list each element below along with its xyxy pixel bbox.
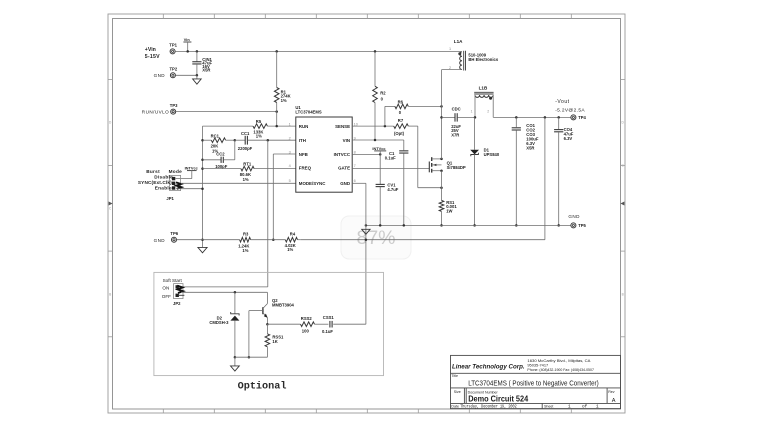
wire soft start bottom row: [235, 356, 268, 358]
capacitor CC2: [201, 140, 235, 169]
svg-text:TP4: TP4: [578, 115, 586, 120]
border zone ticks bottom: [163, 409, 571, 413]
svg-text:2: 2: [449, 66, 451, 70]
transistor Q2 MMBT3904: [249, 292, 295, 325]
label Soft Start: [163, 278, 183, 283]
ground below CIN1: [193, 75, 202, 84]
svg-text:SENSE: SENSE: [335, 124, 350, 129]
U1 pin numbers: [289, 122, 358, 183]
power label INTVcc at U1: [372, 146, 386, 154]
svg-text:-Vout: -Vout: [555, 99, 569, 105]
test point TP5: [568, 214, 586, 228]
capacitor CIN1: [192, 50, 212, 75]
power label INTVcc at JP1: [176, 165, 199, 178]
svg-text:Phone: (408)432-1900 Fax: (408: Phone: (408)432-1900 Fax: (408)434-0507: [527, 367, 594, 372]
svg-text:RT1: RT1: [243, 162, 252, 167]
svg-text:100: 100: [302, 328, 310, 333]
svg-text:ITH: ITH: [299, 138, 306, 143]
wire JP1 pin3 to gnd rail: [176, 187, 204, 190]
border zone letters right: [622, 121, 625, 297]
svg-text:INTVcc: INTVcc: [372, 146, 386, 151]
svg-text:CC2: CC2: [216, 152, 225, 157]
U1 pin labels left: [299, 124, 326, 186]
svg-text:1%: 1%: [287, 247, 293, 252]
resistor RSS1: [265, 324, 284, 357]
resistor RT1: [201, 162, 296, 182]
svg-text:RC1: RC1: [211, 133, 220, 138]
resistor R5: [203, 119, 296, 138]
svg-text:JP2: JP2: [173, 301, 181, 306]
svg-text:Title: Title: [451, 374, 458, 378]
svg-text:R2: R2: [380, 91, 386, 96]
svg-text:Demo Circuit 524: Demo Circuit 524: [468, 395, 529, 404]
svg-text:Optional: Optional: [238, 380, 287, 392]
resistor R1: [274, 50, 290, 126]
ground soft start: [231, 357, 240, 371]
svg-text:4.7uF: 4.7uF: [387, 187, 398, 192]
svg-text:R4: R4: [290, 231, 296, 236]
wire drain column: [441, 70, 443, 201]
svg-text:CSS1: CSS1: [323, 315, 335, 320]
resistor R6: [385, 100, 443, 127]
wire +Vin rail: [175, 50, 461, 52]
capacitor CDC: [440, 107, 475, 138]
wire ITH to soft start: [181, 139, 269, 287]
svg-text:X5R: X5R: [526, 146, 534, 151]
svg-text:Thursday, December 19, 2002: Thursday, December 19, 2002: [460, 405, 517, 410]
diode D1 UPS840: [470, 117, 500, 226]
svg-text:8: 8: [354, 150, 356, 154]
title block title: [451, 374, 598, 387]
border center marker left: [109, 202, 113, 206]
svg-text:R3: R3: [243, 231, 249, 236]
svg-text:1: 1: [471, 109, 473, 113]
wire INTVCC row: [352, 153, 381, 156]
optional box: [154, 272, 384, 375]
svg-text:1: 1: [449, 47, 451, 51]
capacitor CSS1: [322, 315, 366, 334]
resistor R3: [177, 231, 286, 252]
svg-text:R5: R5: [256, 119, 262, 124]
title block company: [452, 358, 594, 372]
svg-text:Mode: Mode: [169, 169, 183, 174]
wire U1 GND pin to rail: [352, 183, 366, 324]
svg-text:Disable: Disable: [154, 175, 173, 180]
svg-text:UPS840: UPS840: [484, 152, 500, 157]
test point TP2: [154, 66, 178, 78]
svg-text:1W: 1W: [446, 209, 452, 214]
ground left rail: [198, 238, 207, 252]
svg-text:X7R: X7R: [451, 133, 459, 138]
svg-text:OFF: OFF: [162, 294, 171, 299]
svg-text:Sheet: Sheet: [544, 404, 553, 408]
svg-text:R6: R6: [398, 100, 404, 105]
transformer L1B: [471, 86, 494, 119]
wire MODE/SYNC: [181, 182, 296, 184]
wire output rail: [493, 116, 571, 119]
svg-text:2: 2: [289, 136, 291, 140]
svg-text:GATE: GATE: [338, 166, 350, 171]
svg-text:2: 2: [487, 109, 489, 113]
svg-text:MODE/SYNC: MODE/SYNC: [299, 181, 326, 186]
svg-text:+Vin: +Vin: [145, 47, 156, 53]
svg-text:INTVcc: INTVcc: [185, 165, 199, 170]
diode D2 CMDSH-3: [209, 292, 239, 358]
svg-text:1: 1: [289, 122, 291, 126]
test point TP1: [169, 42, 177, 54]
svg-text:JP1: JP1: [166, 196, 174, 201]
svg-text:Size: Size: [454, 390, 461, 394]
border zone ticks right: [621, 80, 626, 337]
svg-text:CDC: CDC: [452, 107, 461, 112]
wire SENSE row: [352, 125, 394, 128]
svg-text:0.1uF: 0.1uF: [322, 329, 333, 334]
svg-text:0.1uF: 0.1uF: [385, 155, 396, 160]
wire R7 to sense node: [418, 126, 443, 189]
test point TP4: [571, 115, 587, 120]
wire -Vout to R4: [301, 117, 545, 239]
svg-text:of: of: [582, 405, 588, 410]
test point TP6: [154, 231, 179, 243]
svg-text:6.3V: 6.3V: [564, 136, 573, 141]
svg-text:TP6: TP6: [170, 231, 178, 236]
svg-text:GND: GND: [154, 238, 166, 243]
svg-text:TP3: TP3: [170, 103, 178, 108]
svg-text:1%: 1%: [243, 177, 249, 182]
svg-text:SYNC(Ext.Clk): SYNC(Ext.Clk): [138, 180, 172, 185]
svg-text:1%: 1%: [256, 134, 262, 139]
wire JP2 OFF row: [181, 291, 267, 294]
transistor Q1 Si7884DP: [429, 157, 466, 172]
svg-text:6: 6: [354, 179, 356, 183]
svg-text:Rev: Rev: [608, 390, 615, 394]
capacitor CO1 CO2 CO3: [512, 117, 539, 226]
svg-text:VIN: VIN: [343, 138, 350, 143]
capacitor CO4: [554, 117, 574, 226]
svg-text:4: 4: [289, 164, 291, 168]
svg-text:RUN: RUN: [299, 124, 309, 129]
inner border frame: [113, 19, 621, 410]
jumper JP1: [166, 175, 181, 200]
wire NFB to divider: [272, 154, 296, 241]
label Optional: [238, 380, 287, 392]
wire Q2 base down: [248, 311, 251, 359]
wire gnd rail left: [202, 126, 204, 247]
svg-text:TP5: TP5: [578, 223, 586, 228]
svg-text:Soft Start: Soft Start: [163, 278, 183, 283]
svg-text:7: 7: [354, 164, 356, 168]
border zone ticks left: [108, 80, 113, 337]
capacitor CV1: [376, 154, 399, 225]
svg-text:Date: Date: [451, 404, 459, 408]
resistor RSS2: [267, 316, 328, 333]
svg-text:FREQ: FREQ: [299, 166, 312, 171]
wire TP3 to R1 node: [176, 110, 278, 113]
svg-text:1%: 1%: [242, 248, 248, 253]
border zone ticks top: [163, 14, 571, 19]
border zone letters left: [109, 121, 112, 297]
title block doc number: [454, 390, 616, 404]
border center marker right: [620, 202, 624, 206]
label +Vin 5-15V: [145, 47, 160, 60]
svg-text:(Opt): (Opt): [394, 131, 405, 136]
svg-text:L1B: L1B: [479, 86, 488, 91]
svg-text:1: 1: [568, 405, 571, 410]
svg-text:TP1: TP1: [169, 42, 177, 47]
svg-text:LTC3704EMS ( Positive to Negat: LTC3704EMS ( Positive to Negative Conver…: [468, 380, 599, 387]
ground at rail: [362, 229, 370, 241]
svg-text:5-15V: 5-15V: [145, 54, 160, 60]
wire gnd rail bottom: [365, 224, 571, 227]
op-amp U1 LTC3704EMS box: [295, 105, 352, 192]
svg-text:BH Electronics: BH Electronics: [468, 57, 498, 62]
svg-text:ON: ON: [162, 285, 169, 290]
jumper JP2: [162, 284, 185, 306]
svg-text:2200pF: 2200pF: [238, 146, 253, 151]
svg-text:LTC3704EMS: LTC3704EMS: [295, 110, 321, 115]
svg-text:Enable: Enable: [155, 186, 172, 191]
svg-text:1%: 1%: [281, 98, 287, 103]
svg-text:TP2: TP2: [170, 66, 178, 71]
svg-text:GND: GND: [154, 73, 166, 78]
label Burst Mode jumper: [138, 169, 182, 190]
svg-text:Vin: Vin: [184, 38, 191, 42]
svg-text:5: 5: [289, 179, 291, 183]
svg-text:-5.2V@2.5A: -5.2V@2.5A: [555, 108, 585, 114]
svg-text:R7: R7: [398, 118, 404, 123]
resistor R7: [394, 118, 418, 136]
svg-text:CC1: CC1: [241, 131, 250, 136]
U1 pin labels right: [334, 124, 351, 186]
svg-text:A: A: [612, 398, 616, 404]
outer border frame: [108, 14, 625, 413]
svg-text:GND: GND: [340, 181, 350, 186]
wire VIN row: [352, 139, 404, 142]
svg-text:Linear Technology Corp.: Linear Technology Corp.: [452, 364, 525, 371]
title block frame: [451, 355, 621, 408]
svg-text:1K: 1K: [272, 339, 277, 344]
power label Vin: [183, 38, 191, 53]
transformer L1A: [442, 39, 499, 71]
wire TP2 to CIN1: [176, 74, 199, 77]
wire GATE row: [352, 167, 429, 169]
title block date row: [451, 404, 599, 409]
svg-text:CMDSH-3: CMDSH-3: [209, 320, 229, 325]
resistor R4: [285, 231, 301, 252]
svg-text:X5R: X5R: [202, 68, 210, 73]
svg-text:1: 1: [596, 405, 599, 410]
svg-text:B: B: [622, 293, 624, 297]
resistor RC1: [201, 133, 235, 153]
svg-text:Burst: Burst: [146, 169, 160, 174]
svg-text:GND: GND: [568, 214, 580, 219]
svg-text:MMBT3904: MMBT3904: [272, 302, 295, 307]
svg-text:Si7884DP: Si7884DP: [447, 165, 466, 170]
svg-text:B: B: [109, 293, 111, 297]
svg-text:INTVCC: INTVCC: [334, 152, 351, 157]
svg-text:NFB: NFB: [299, 152, 308, 157]
svg-text:RSS2: RSS2: [301, 316, 313, 321]
test point TP3: [142, 103, 178, 115]
resistor R2: [373, 50, 387, 140]
resistor RS1: [439, 200, 457, 227]
capacitor C1: [385, 140, 409, 225]
svg-text:RUN/UVLO: RUN/UVLO: [142, 109, 169, 114]
svg-text:L1A: L1A: [454, 39, 463, 44]
label -Vout: [555, 99, 585, 113]
zoom watermark 87%: [341, 216, 411, 259]
capacitor CC1: [234, 131, 296, 151]
